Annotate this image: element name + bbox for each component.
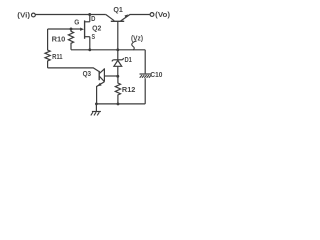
Q3 collector lead <box>99 69 104 74</box>
Q1 emitter arrowhead <box>125 14 129 18</box>
Q3 emitter lead <box>99 76 104 81</box>
node (Vz) label with leader <box>131 33 143 50</box>
resistor R11 (gate to Q3 base) <box>45 29 63 68</box>
D1 cathode bar <box>113 59 122 61</box>
svg-text:D: D <box>91 14 96 23</box>
svg-text:G: G <box>74 17 79 26</box>
C10 top wire from Vz rail corner <box>144 50 146 74</box>
svg-text:R12: R12 <box>122 85 135 94</box>
D1 cathode wire from Vz rail <box>117 50 119 60</box>
capacitor C10 (electrolytic, Vz to ground rail) <box>140 50 163 104</box>
node R12 / bottom rail junction <box>117 102 120 105</box>
terminal circle Vi <box>32 13 36 17</box>
ground stem <box>95 104 97 112</box>
Q3 emitter arrowhead <box>97 83 101 87</box>
Q2 gate arrowhead <box>80 28 84 31</box>
svg-text:S: S <box>92 32 96 41</box>
node Q2 source junction on Vz rail <box>88 48 91 51</box>
Q2 drain stub <box>85 21 90 23</box>
wire Q2 gate <box>48 28 81 30</box>
wire Vz rail (R10 to C10 branch) <box>71 49 145 51</box>
node Q3 emitter / ground junction <box>95 103 98 106</box>
C10 hatched bottom plate <box>140 75 142 78</box>
wire Q3 base (from R11) <box>48 68 99 72</box>
node drain junction on top rail <box>88 13 91 16</box>
Q1 emitter lead <box>121 15 130 22</box>
svg-text:R11: R11 <box>52 52 63 61</box>
D1 zener tick right <box>122 58 123 60</box>
svg-text:(Vo): (Vo) <box>155 10 170 19</box>
wire top rail right (Q1 emitter to Vo) <box>130 14 150 16</box>
svg-text:Q1: Q1 <box>113 5 123 14</box>
resistor R10 (gate to source) <box>52 29 74 50</box>
Q2 source stub <box>85 36 90 38</box>
wire Q1 base down to Vz node <box>117 21 119 50</box>
svg-text:(Vz): (Vz) <box>131 33 143 42</box>
ground symbol <box>91 104 101 116</box>
D1 anode wire <box>117 66 119 76</box>
Q2 source wire to Vz rail <box>89 37 91 50</box>
Q3 emitter wire elbow to ground rail <box>97 82 105 104</box>
zener diode D1 <box>112 50 132 76</box>
JFET Q2 <box>74 14 101 50</box>
terminal circle Vo <box>150 13 154 17</box>
C10 top plate <box>140 73 151 75</box>
terminal (Vo) output <box>150 10 171 19</box>
C10 bottom wire to ground rail <box>144 78 146 104</box>
Q1 base bar <box>111 20 124 22</box>
leader squiggle to Vz rail <box>132 41 137 50</box>
svg-text:D1: D1 <box>125 55 132 64</box>
svg-text:R10: R10 <box>52 35 66 44</box>
node D1 anode / R12 / Q3 collector junction <box>116 75 119 78</box>
svg-text:(Vi): (Vi) <box>17 10 30 19</box>
resistor R12 (to ground rail) <box>115 76 135 104</box>
R10 zigzag body <box>68 29 73 50</box>
transistor Q3 (NPN) <box>83 68 105 104</box>
R12 zigzag body <box>115 76 120 104</box>
ground bar <box>92 111 101 113</box>
Q2 channel bar <box>84 20 86 38</box>
node Q1 base / D1 cathode junction on Vz rail <box>116 48 119 51</box>
transistor Q1 (NPN pass transistor) <box>106 5 130 21</box>
D1 triangle <box>114 60 122 66</box>
R11 zigzag body <box>45 29 50 68</box>
node gate/R10 junction <box>70 28 73 31</box>
Q1 collector lead <box>106 15 114 21</box>
wire top rail left (Vi to Q1 collector) <box>36 14 106 16</box>
ground hatch strokes <box>91 112 93 115</box>
wire bottom ground rail <box>96 103 145 105</box>
terminal (Vi) input <box>17 10 35 19</box>
D1 zener tick left <box>112 60 113 62</box>
Q2 drain wire to top rail <box>89 15 91 22</box>
wire Q3 collector to D1 anode node <box>104 75 117 77</box>
svg-text:C10: C10 <box>150 70 162 79</box>
Q3 base bar <box>98 71 100 80</box>
svg-text:Q3: Q3 <box>83 69 92 78</box>
Q3 collector-emitter vertical wire <box>103 68 105 81</box>
